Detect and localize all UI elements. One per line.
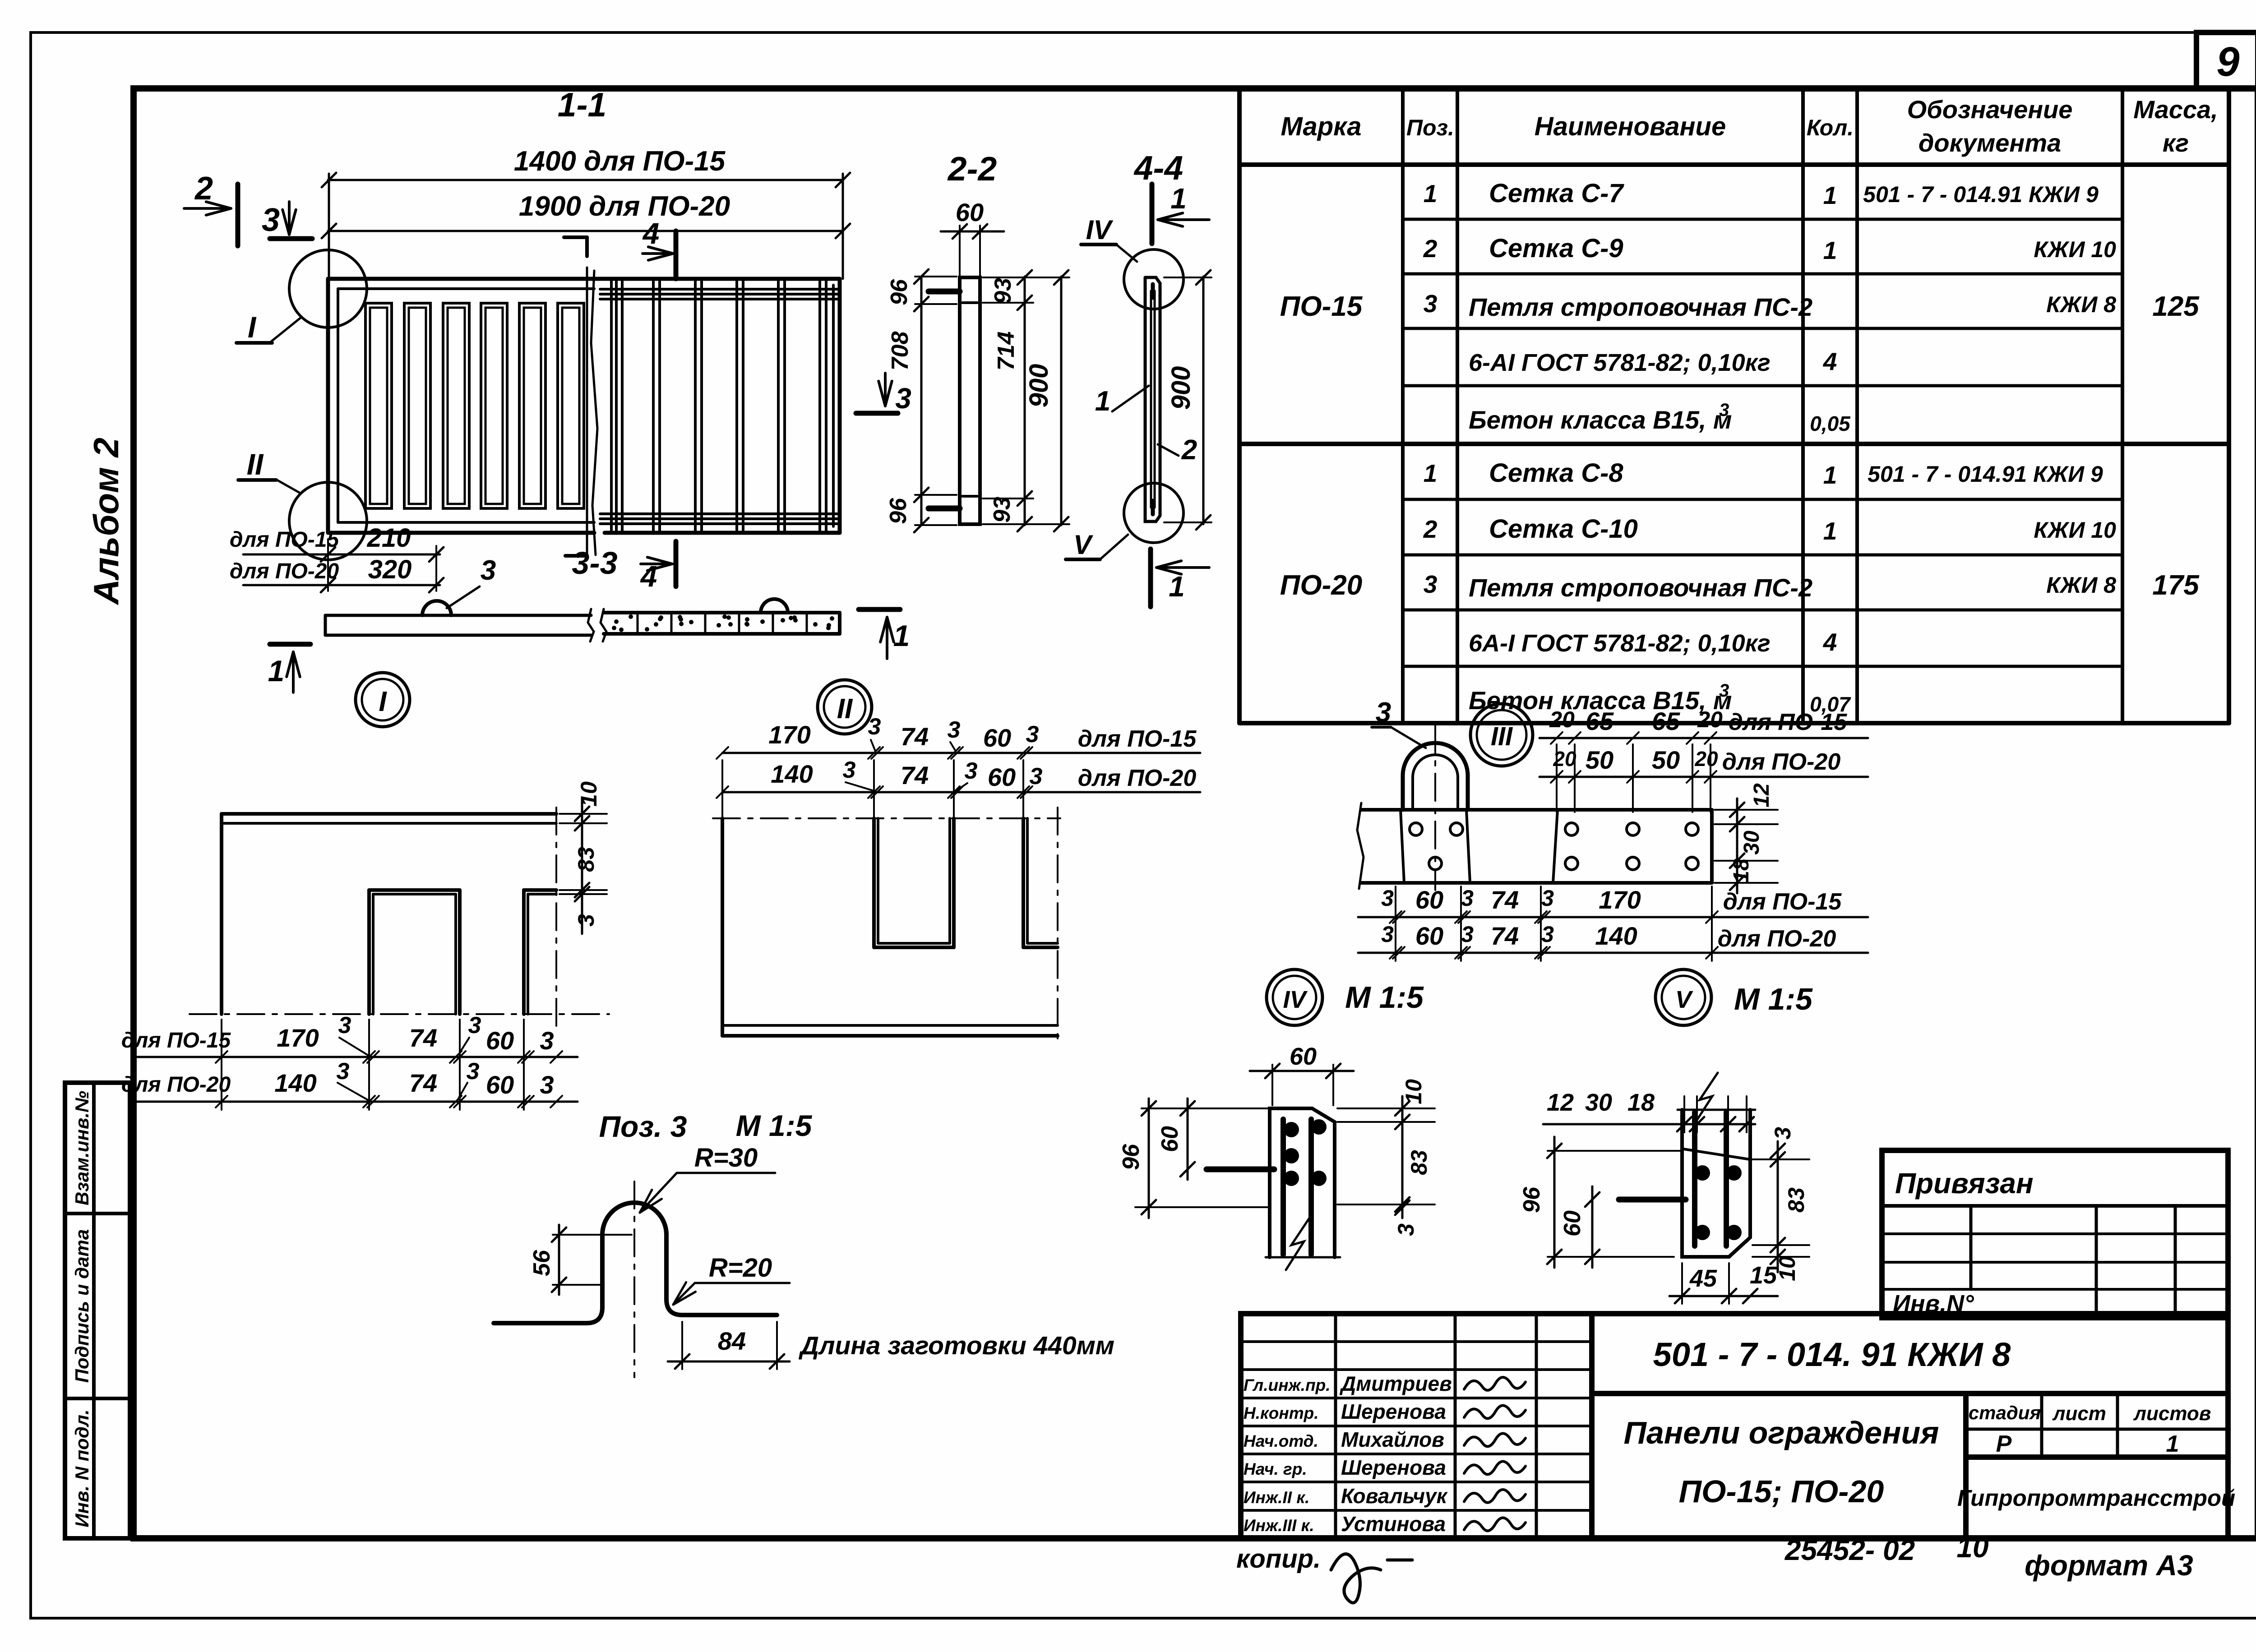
detail V circle label with scale [1655, 969, 1711, 1025]
mesh view horizontal rebar band bottom [600, 512, 840, 515]
signatures scribbles [1464, 1377, 1526, 1390]
detail I axis line bottom [190, 1013, 609, 1015]
svg-text:15: 15 [1750, 1262, 1777, 1289]
svg-text:3: 3 [1461, 922, 1474, 947]
break line between panel halves [591, 271, 597, 555]
2-2 panel bar cross-section [960, 277, 980, 524]
svg-text:стадия: стадия [1969, 1402, 2041, 1423]
svg-text:3: 3 [481, 555, 496, 586]
svg-text:II: II [837, 693, 853, 724]
svg-text:30: 30 [1585, 1089, 1612, 1116]
svg-text:Поз. 3: Поз. 3 [599, 1110, 687, 1143]
svg-text:501 - 7 - 014.91 КЖИ 9: 501 - 7 - 014.91 КЖИ 9 [1868, 461, 2103, 487]
svg-text:96: 96 [1519, 1186, 1545, 1213]
svg-text:документа: документа [1919, 129, 2061, 157]
svg-text:3: 3 [1376, 697, 1391, 728]
svg-text:для ПО-20: для ПО-20 [1722, 749, 1841, 775]
svg-text:Устинова: Устинова [1341, 1512, 1446, 1536]
svg-text:3: 3 [1030, 763, 1043, 789]
svg-text:формат А3: формат А3 [2025, 1549, 2193, 1582]
specification table grid [1237, 88, 1242, 723]
detail V block outline [1682, 1110, 1750, 1257]
detail I slot walls [369, 888, 460, 892]
svg-text:3: 3 [1541, 886, 1554, 911]
svg-text:Сетка С-10: Сетка С-10 [1489, 514, 1638, 544]
svg-text:Н.контр.: Н.контр. [1244, 1404, 1318, 1422]
svg-text:Сетка С-7: Сетка С-7 [1489, 179, 1624, 208]
svg-text:1: 1 [1823, 236, 1837, 264]
svg-text:КЖИ 10: КЖИ 10 [2034, 237, 2116, 262]
svg-text:для ПО-15: для ПО-15 [1729, 709, 1848, 735]
detail circle V marker [1124, 483, 1183, 543]
svg-text:V: V [1675, 986, 1693, 1013]
svg-text:Марка: Марка [1281, 112, 1361, 141]
Поз.3 centerline [633, 1181, 635, 1377]
2-2 right dimension chain 93 714 93 [1024, 277, 1026, 525]
svg-text:3: 3 [843, 757, 856, 783]
svg-text:Длина заготовки 440мм: Длина заготовки 440мм [798, 1331, 1114, 1360]
left margin stamp column [65, 1083, 130, 1538]
svg-text:2: 2 [1181, 434, 1197, 466]
detail II slot 2 partial [1022, 818, 1025, 947]
svg-text:74: 74 [1491, 922, 1519, 950]
svg-text:1: 1 [1170, 182, 1187, 215]
svg-text:900: 900 [1166, 366, 1196, 410]
detail III loop legs through strip [1401, 810, 1404, 883]
svg-text:60: 60 [486, 1071, 514, 1099]
svg-text:для ПО-15: для ПО-15 [1078, 726, 1197, 752]
svg-text:Шеренова: Шеренова [1341, 1400, 1446, 1423]
second lifting loop on strip [761, 599, 788, 613]
detail III separating break line [1553, 810, 1558, 883]
detail IV circle label with scale [1267, 969, 1322, 1025]
svg-text:60: 60 [1157, 1126, 1183, 1152]
svg-text:60: 60 [1415, 886, 1443, 914]
svg-text:ПО-20: ПО-20 [1280, 570, 1362, 601]
svg-text:Подпись и дата: Подпись и дата [71, 1229, 92, 1383]
svg-text:1: 1 [1823, 461, 1837, 489]
svg-text:Р: Р [1996, 1431, 2012, 1457]
detail IV block outline [1270, 1108, 1335, 1257]
svg-text:12: 12 [1750, 783, 1774, 808]
svg-text:84: 84 [718, 1327, 746, 1355]
detail III circle label [1470, 704, 1533, 766]
svg-text:93: 93 [990, 278, 1016, 304]
svg-text:1: 1 [1424, 180, 1438, 208]
svg-text:лист: лист [2052, 1403, 2106, 1425]
svg-text:12: 12 [1547, 1089, 1574, 1116]
svg-text:Петля строповочная ПС-2: Петля строповочная ПС-2 [1469, 293, 1812, 321]
svg-text:3-3: 3-3 [572, 545, 617, 581]
Привязан reference box [1882, 1150, 2228, 1318]
svg-text:Инж.II к.: Инж.II к. [1244, 1488, 1309, 1507]
svg-text:I: I [248, 310, 257, 344]
svg-text:1: 1 [1424, 459, 1438, 487]
svg-text:V: V [1073, 530, 1094, 560]
svg-text:для ПО-20: для ПО-20 [1078, 765, 1197, 791]
svg-text:65: 65 [1586, 707, 1614, 735]
svg-text:1: 1 [893, 619, 910, 652]
svg-text:3: 3 [1770, 1127, 1795, 1140]
svg-text:Нач. гр.: Нач. гр. [1244, 1460, 1307, 1478]
svg-text:Панели ограждения: Панели ограждения [1624, 1415, 1939, 1450]
strip 3-3: side view left part with lifting loop [325, 614, 591, 617]
svg-text:Альбом 2: Альбом 2 [86, 438, 126, 605]
detail II slot 1 [872, 818, 876, 947]
svg-text:Масса,: Масса, [2133, 95, 2218, 124]
svg-text:3: 3 [540, 1071, 554, 1099]
view detail circle I on panel corner [289, 250, 367, 328]
title block stage/sheet cells [1966, 1394, 2228, 1457]
view marker 1 bottom-left [270, 642, 310, 647]
svg-text:для ПО-20: для ПО-20 [121, 1073, 231, 1097]
detail III lifting loop elevation [1403, 743, 1468, 810]
svg-text:4: 4 [1823, 628, 1837, 656]
2-2 loop wire stubs [929, 289, 960, 295]
4-4 marker 1 bottom [1148, 549, 1153, 607]
svg-text:10: 10 [1401, 1079, 1426, 1104]
svg-text:74: 74 [409, 1069, 437, 1097]
svg-text:74: 74 [409, 1024, 437, 1052]
svg-text:900: 900 [1024, 364, 1054, 408]
svg-text:170: 170 [277, 1024, 319, 1052]
svg-text:93: 93 [989, 497, 1015, 523]
svg-text:IV: IV [1086, 215, 1114, 245]
dimension extension lines [328, 174, 330, 279]
svg-text:1900 для ПО-20: 1900 для ПО-20 [519, 191, 730, 222]
svg-text:Дмитриев: Дмитриев [1339, 1372, 1452, 1395]
svg-text:210: 210 [367, 523, 411, 553]
svg-text:1: 1 [1169, 570, 1185, 603]
svg-text:60: 60 [956, 198, 984, 226]
svg-text:714: 714 [993, 332, 1019, 371]
svg-text:для ПО-15: для ПО-15 [230, 528, 340, 552]
svg-text:3: 3 [338, 1012, 351, 1038]
svg-text:96: 96 [885, 498, 911, 524]
svg-text:КЖИ 10: КЖИ 10 [2034, 517, 2116, 543]
svg-text:кг: кг [2163, 129, 2189, 157]
svg-text:3: 3 [1393, 1223, 1419, 1236]
svg-text:50: 50 [1652, 746, 1680, 774]
svg-text:М 1:5: М 1:5 [736, 1109, 813, 1142]
svg-text:83: 83 [573, 847, 599, 872]
svg-text:Сетка С-9: Сетка С-9 [1489, 234, 1623, 263]
svg-text:3: 3 [1424, 570, 1438, 598]
svg-text:для ПО-20: для ПО-20 [230, 559, 339, 583]
svg-text:3: 3 [467, 1058, 480, 1084]
svg-text:1: 1 [1823, 517, 1837, 545]
svg-text:56: 56 [529, 1250, 555, 1276]
svg-text:170: 170 [1599, 886, 1641, 914]
4-4 panel bar side view [1145, 277, 1160, 521]
svg-text:1: 1 [268, 654, 285, 688]
svg-text:2: 2 [1423, 235, 1438, 263]
svg-text:10: 10 [1956, 1531, 1988, 1564]
svg-text:3: 3 [895, 382, 911, 415]
svg-text:для ПО-15: для ПО-15 [1723, 889, 1842, 915]
svg-text:Михайлов: Михайлов [1341, 1428, 1444, 1451]
svg-text:3: 3 [540, 1026, 554, 1055]
svg-text:Нач.отд.: Нач.отд. [1244, 1432, 1318, 1450]
svg-text:Бетон класса В15, м: Бетон класса В15, м [1469, 406, 1732, 434]
svg-text:Кол.: Кол. [1807, 115, 1854, 140]
strip 3-3: cross-section right part with aggregate dots [604, 611, 840, 614]
svg-text:25452- 02: 25452- 02 [1784, 1534, 1915, 1566]
svg-text:ПО-15: ПО-15 [1280, 291, 1363, 322]
svg-text:Поз.: Поз. [1406, 115, 1454, 140]
svg-text:140: 140 [1595, 922, 1637, 950]
svg-text:3: 3 [1381, 886, 1394, 911]
svg-text:60: 60 [1290, 1043, 1317, 1070]
view detail circle II on panel lower corner [289, 482, 367, 560]
detail V rebar bars [1692, 1112, 1697, 1246]
svg-text:501 - 7 - 014.91 КЖИ 9: 501 - 7 - 014.91 КЖИ 9 [1863, 182, 2099, 207]
detail III panel top rail strip [1361, 808, 1712, 812]
svg-text:R=30: R=30 [694, 1143, 758, 1172]
svg-text:6А-I ГОСТ 5781-82; 0,10кг: 6А-I ГОСТ 5781-82; 0,10кг [1469, 630, 1771, 657]
detail IV break mark [1286, 1218, 1309, 1270]
svg-text:КЖИ 8: КЖИ 8 [2046, 292, 2116, 317]
detail IV horizontal rebar [1207, 1167, 1274, 1172]
svg-text:320: 320 [368, 555, 412, 584]
svg-text:0,05: 0,05 [1810, 412, 1851, 435]
svg-text:3: 3 [1381, 922, 1394, 947]
svg-text:3: 3 [337, 1058, 350, 1084]
svg-text:IV: IV [1283, 986, 1308, 1013]
svg-text:Инж.III к.: Инж.III к. [1244, 1516, 1314, 1535]
svg-text:III: III [1491, 722, 1513, 751]
svg-text:170: 170 [768, 720, 810, 749]
svg-text:для ПО-20: для ПО-20 [1718, 926, 1836, 952]
section cut line 3-3 through panel [585, 237, 589, 256]
svg-text:10: 10 [576, 781, 601, 807]
mesh view vertical rebars [610, 281, 613, 531]
svg-text:КЖИ 8: КЖИ 8 [2046, 572, 2116, 598]
4-4 overall dimension 900 [1202, 277, 1205, 524]
svg-text:708: 708 [887, 332, 913, 371]
title block organization cell [1966, 1457, 2228, 1538]
mesh view (right half of 1-1): horizontal rebar band top [600, 288, 840, 291]
svg-text:Инв. N подл.: Инв. N подл. [71, 1409, 92, 1527]
svg-text:83: 83 [1406, 1150, 1432, 1175]
detail IV rebar bars [1281, 1119, 1286, 1255]
svg-text:3: 3 [1719, 681, 1729, 701]
svg-text:I: I [379, 686, 387, 717]
svg-text:74: 74 [901, 722, 929, 751]
svg-text:65: 65 [1652, 707, 1680, 735]
view marker 1 bottom-right [859, 607, 900, 612]
panel face ribs: six vertical slots [365, 303, 392, 508]
svg-text:83: 83 [1784, 1187, 1809, 1213]
svg-text:Наименование: Наименование [1535, 112, 1726, 141]
detail II: panel corner profile from below [713, 817, 1060, 819]
svg-text:3: 3 [1026, 721, 1039, 748]
svg-text:1400 для ПО-15: 1400 для ПО-15 [514, 146, 726, 177]
page number box top-right [2196, 32, 2256, 88]
svg-text:Гл.инж.пр.: Гл.инж.пр. [1244, 1376, 1331, 1394]
svg-text:3: 3 [948, 717, 961, 743]
svg-text:для ПО-15: для ПО-15 [121, 1029, 231, 1052]
svg-text:4-4: 4-4 [1133, 149, 1183, 187]
title block document number header [1592, 1314, 2228, 1394]
svg-text:1: 1 [2166, 1431, 2179, 1457]
svg-text:1: 1 [1095, 386, 1110, 417]
svg-text:60: 60 [983, 724, 1011, 752]
svg-text:96: 96 [1118, 1144, 1144, 1170]
svg-text:9: 9 [2216, 39, 2239, 85]
svg-text:3: 3 [1424, 290, 1438, 318]
svg-text:II: II [247, 448, 264, 481]
2-2 overall dimension 900 [1060, 277, 1063, 525]
svg-text:1-1: 1-1 [558, 86, 606, 124]
detail III wire holes [1410, 823, 1422, 835]
svg-text:М 1:5: М 1:5 [1345, 980, 1424, 1015]
svg-text:20: 20 [1694, 747, 1718, 771]
2-2 left dimension chain 96 708 96 [920, 277, 923, 525]
svg-text:Петля строповочная ПС-2: Петля строповочная ПС-2 [1469, 573, 1812, 602]
svg-text:R=20: R=20 [709, 1253, 772, 1283]
svg-text:3: 3 [262, 202, 280, 238]
svg-text:20: 20 [1549, 707, 1575, 732]
svg-text:4: 4 [1823, 347, 1837, 375]
detail V inner offset line [1683, 1149, 1750, 1159]
view circle label I below strip [356, 673, 410, 727]
svg-text:3: 3 [868, 714, 881, 740]
svg-text:Шеренова: Шеренова [1341, 1456, 1446, 1479]
svg-text:20: 20 [1697, 707, 1723, 732]
svg-text:74: 74 [1491, 886, 1519, 914]
view circle label II below strip [818, 680, 872, 734]
svg-text:2: 2 [194, 171, 213, 207]
svg-text:60: 60 [486, 1026, 514, 1055]
svg-text:Сетка С-8: Сетка С-8 [1489, 458, 1623, 488]
detail I: panel corner profile [222, 812, 556, 816]
svg-text:копир.: копир. [1236, 1544, 1321, 1574]
title block signature table [1241, 1314, 1592, 1538]
svg-text:140: 140 [274, 1069, 316, 1097]
svg-text:1: 1 [1823, 181, 1837, 209]
detail V break mark [1694, 1073, 1718, 1124]
svg-text:74: 74 [901, 761, 929, 789]
panel face view outline (left half of 1-1) [328, 277, 840, 281]
svg-text:М 1:5: М 1:5 [1734, 982, 1813, 1016]
svg-text:листов: листов [2133, 1403, 2211, 1425]
svg-text:6-АI ГОСТ 5781-82; 0,10кг: 6-АI ГОСТ 5781-82; 0,10кг [1469, 349, 1771, 376]
svg-text:50: 50 [1586, 746, 1613, 774]
svg-text:60: 60 [1559, 1210, 1586, 1237]
svg-text:140: 140 [771, 760, 813, 788]
svg-text:125: 125 [2152, 291, 2200, 322]
svg-text:2: 2 [1423, 515, 1438, 543]
svg-text:Гипропромтрансстрой: Гипропромтрансстрой [1957, 1485, 2235, 1511]
svg-text:ПО-15; ПО-20: ПО-15; ПО-20 [1679, 1474, 1884, 1509]
Поз.3 wire bend profile [494, 1203, 777, 1323]
svg-text:60: 60 [1415, 922, 1443, 950]
detail circle IV marker [1124, 249, 1183, 309]
svg-text:Привязан: Привязан [1895, 1167, 2034, 1200]
svg-text:3: 3 [1541, 922, 1554, 947]
svg-text:2-2: 2-2 [947, 150, 997, 188]
svg-text:3: 3 [573, 914, 599, 927]
svg-text:501 - 7 - 014. 91 КЖИ 8: 501 - 7 - 014. 91 КЖИ 8 [1653, 1336, 2011, 1373]
detail V horizontal rebar [1619, 1197, 1686, 1203]
svg-text:3: 3 [468, 1012, 481, 1038]
svg-text:Обозначение: Обозначение [1907, 95, 2073, 124]
svg-text:30: 30 [1740, 831, 1764, 855]
svg-text:175: 175 [2152, 570, 2200, 601]
svg-text:96: 96 [886, 279, 912, 305]
svg-text:Ковальчук: Ковальчук [1341, 1484, 1448, 1508]
svg-text:4: 4 [642, 217, 660, 250]
title block drawing name cell [1592, 1394, 1966, 1538]
svg-text:45: 45 [1689, 1265, 1717, 1292]
svg-text:3: 3 [1461, 886, 1474, 911]
strip 3-3 break marks [588, 609, 594, 641]
svg-text:3: 3 [1719, 400, 1729, 420]
svg-text:Взам.инв.№: Взам.инв.№ [71, 1091, 92, 1205]
svg-text:3: 3 [965, 758, 978, 784]
svg-text:60: 60 [988, 763, 1016, 791]
svg-text:18: 18 [1627, 1089, 1655, 1116]
